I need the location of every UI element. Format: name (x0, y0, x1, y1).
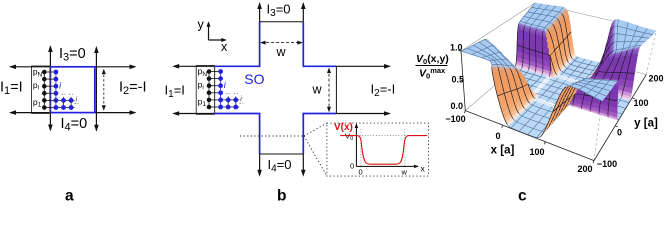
svg-text:w: w (401, 168, 408, 177)
svg-text:0: 0 (350, 162, 354, 171)
svg-text:−100: −100 (597, 159, 617, 169)
svg-text:SO: SO (244, 71, 264, 87)
lead slice boundary line (214, 65, 216, 114)
blue cross outline (213, 22, 336, 154)
lead boundary lines with arrows (11, 66, 51, 68)
svg-text:100: 100 (529, 147, 544, 157)
svg-text:100: 100 (633, 98, 648, 108)
inset callout dotted lines (240, 135, 304, 137)
svg-text:I4=0: I4=0 (61, 116, 88, 134)
coordinate axes icon (208, 23, 210, 40)
svg-text:0.0: 0.0 (450, 101, 463, 111)
svg-text:0: 0 (617, 128, 622, 138)
bottom lead cap and arrows (260, 153, 304, 155)
svg-text:w: w (276, 45, 287, 59)
svg-text:200: 200 (648, 74, 663, 84)
svg-text:1.0: 1.0 (450, 43, 463, 53)
svg-text:x [a]: x [a] (491, 145, 515, 157)
3D box hidden edges (461, 3, 656, 161)
svg-text:−100: −100 (445, 114, 465, 124)
svg-text:x: x (221, 40, 228, 54)
lead lattice sites (black) and device sites (blue) (207, 69, 212, 74)
svg-text:y [a]: y [a] (634, 118, 658, 130)
svg-text:0.5: 0.5 (451, 75, 464, 85)
lead lattice sites (black) and device sites (blue) (42, 70, 47, 75)
potential surface mesh (461, 3, 656, 138)
tight-binding bonds (43, 72, 45, 108)
right lead cap and arrows (335, 66, 337, 113)
svg-text:I3=0: I3=0 (59, 46, 86, 64)
svg-text:0: 0 (359, 168, 363, 177)
svg-text:b: b (277, 188, 286, 203)
lead slice label box (196, 66, 214, 115)
svg-text:I1=I: I1=I (165, 83, 185, 101)
svg-text:200: 200 (577, 164, 592, 174)
scattering square region (50, 67, 94, 113)
tight-binding bonds (208, 72, 210, 108)
svg-text:I1=I: I1=I (0, 80, 23, 98)
lead slice boundary line (49, 66, 51, 114)
3D axes frame (458, 51, 646, 164)
inset box (327, 123, 429, 176)
w width arrows (261, 42, 302, 44)
left lead lines and arrows (174, 65, 213, 67)
svg-text:V(x): V(x) (334, 122, 353, 133)
svg-text:y: y (198, 18, 205, 32)
svg-text:0: 0 (495, 131, 500, 141)
dashed width arrow (103, 71, 105, 110)
lead slice label box (32, 66, 50, 113)
svg-text:w: w (312, 83, 323, 97)
svg-text:I3=0: I3=0 (267, 2, 291, 20)
svg-text:V0(x,y): V0(x,y) (416, 53, 449, 66)
svg-text:I4=0: I4=0 (268, 157, 292, 175)
svg-text:a: a (65, 188, 74, 203)
svg-text:c: c (518, 188, 527, 203)
top lead cap and arrows (260, 21, 304, 23)
